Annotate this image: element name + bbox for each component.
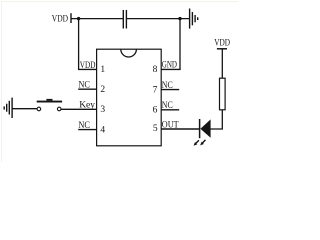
pin 6 stub line bbox=[161, 109, 179, 111]
pin 5 stub wire to LED cathode bbox=[161, 128, 199, 130]
svg-text:NC: NC bbox=[78, 121, 90, 131]
svg-text:VDD: VDD bbox=[214, 39, 230, 49]
resistor R1 body bbox=[220, 78, 226, 110]
svg-text:VDD: VDD bbox=[80, 61, 96, 71]
svg-text:Key: Key bbox=[79, 100, 95, 110]
capacitor C1 left plate bbox=[122, 10, 124, 29]
wire: VDD rail from tick to capacitor left plate bbox=[71, 18, 123, 20]
pin 7 stub line bbox=[161, 89, 179, 91]
wire: capacitor right plate to top-right ground bbox=[127, 18, 189, 20]
power symbol VDD tick (top-left) bbox=[70, 13, 72, 23]
wire: resistor down to LED anode corner bbox=[210, 110, 222, 129]
svg-text:VDD: VDD bbox=[52, 15, 68, 25]
switch S1 button cap bbox=[46, 99, 52, 101]
svg-text:OUT: OUT bbox=[162, 120, 179, 130]
pin 3 stub line bbox=[61, 108, 97, 110]
svg-text:8: 8 bbox=[153, 65, 158, 75]
svg-text:3: 3 bbox=[100, 105, 105, 115]
svg-text:1: 1 bbox=[100, 65, 105, 75]
pin 1 stub line bbox=[78, 68, 97, 70]
switch S1 left terminal circle bbox=[37, 107, 41, 111]
svg-text:NC: NC bbox=[78, 80, 90, 90]
LED D1 cathode bar bbox=[199, 119, 201, 138]
svg-text:4: 4 bbox=[100, 125, 105, 135]
svg-text:6: 6 bbox=[153, 106, 158, 116]
switch S1 actuator bar bbox=[37, 101, 62, 103]
IC pin-1 notch (top center semicircle) bbox=[121, 49, 137, 57]
switch S1 right terminal circle bbox=[57, 107, 61, 111]
wire: drop from rail down to pin 1 (VDD) bbox=[78, 19, 80, 70]
svg-text:GND: GND bbox=[162, 61, 177, 71]
page border frame bbox=[2, 2, 239, 163]
pin 8 stub line bbox=[161, 68, 180, 70]
svg-text:2: 2 bbox=[100, 85, 105, 95]
junction: rail to pin-8 drop bbox=[178, 17, 181, 20]
junction: rail to pin-1 drop bbox=[77, 17, 80, 20]
op IC U1 body bbox=[97, 49, 162, 146]
svg-text:5: 5 bbox=[153, 124, 158, 134]
LED light arrow 2 bbox=[200, 140, 205, 146]
capacitor C1 right plate bbox=[125, 10, 127, 29]
power symbol VDD bar (right) bbox=[217, 48, 227, 50]
LED light arrow 1 bbox=[194, 140, 199, 146]
LED D1 triangle bbox=[200, 119, 210, 137]
svg-text:NC: NC bbox=[162, 101, 173, 111]
ground symbol (top right, bars facing right) bbox=[190, 9, 198, 29]
wire: VDD bar down to resistor bbox=[221, 49, 223, 78]
pin 4 stub line bbox=[78, 129, 96, 131]
svg-text:7: 7 bbox=[153, 85, 158, 95]
wire: left ground to switch left terminal bbox=[12, 108, 37, 110]
pin 2 stub line bbox=[78, 88, 96, 90]
svg-text:NC: NC bbox=[162, 81, 173, 91]
wire: drop from rail down to pin 8 (GND) bbox=[179, 19, 181, 70]
ground symbol (left, bars facing left) bbox=[4, 98, 12, 118]
